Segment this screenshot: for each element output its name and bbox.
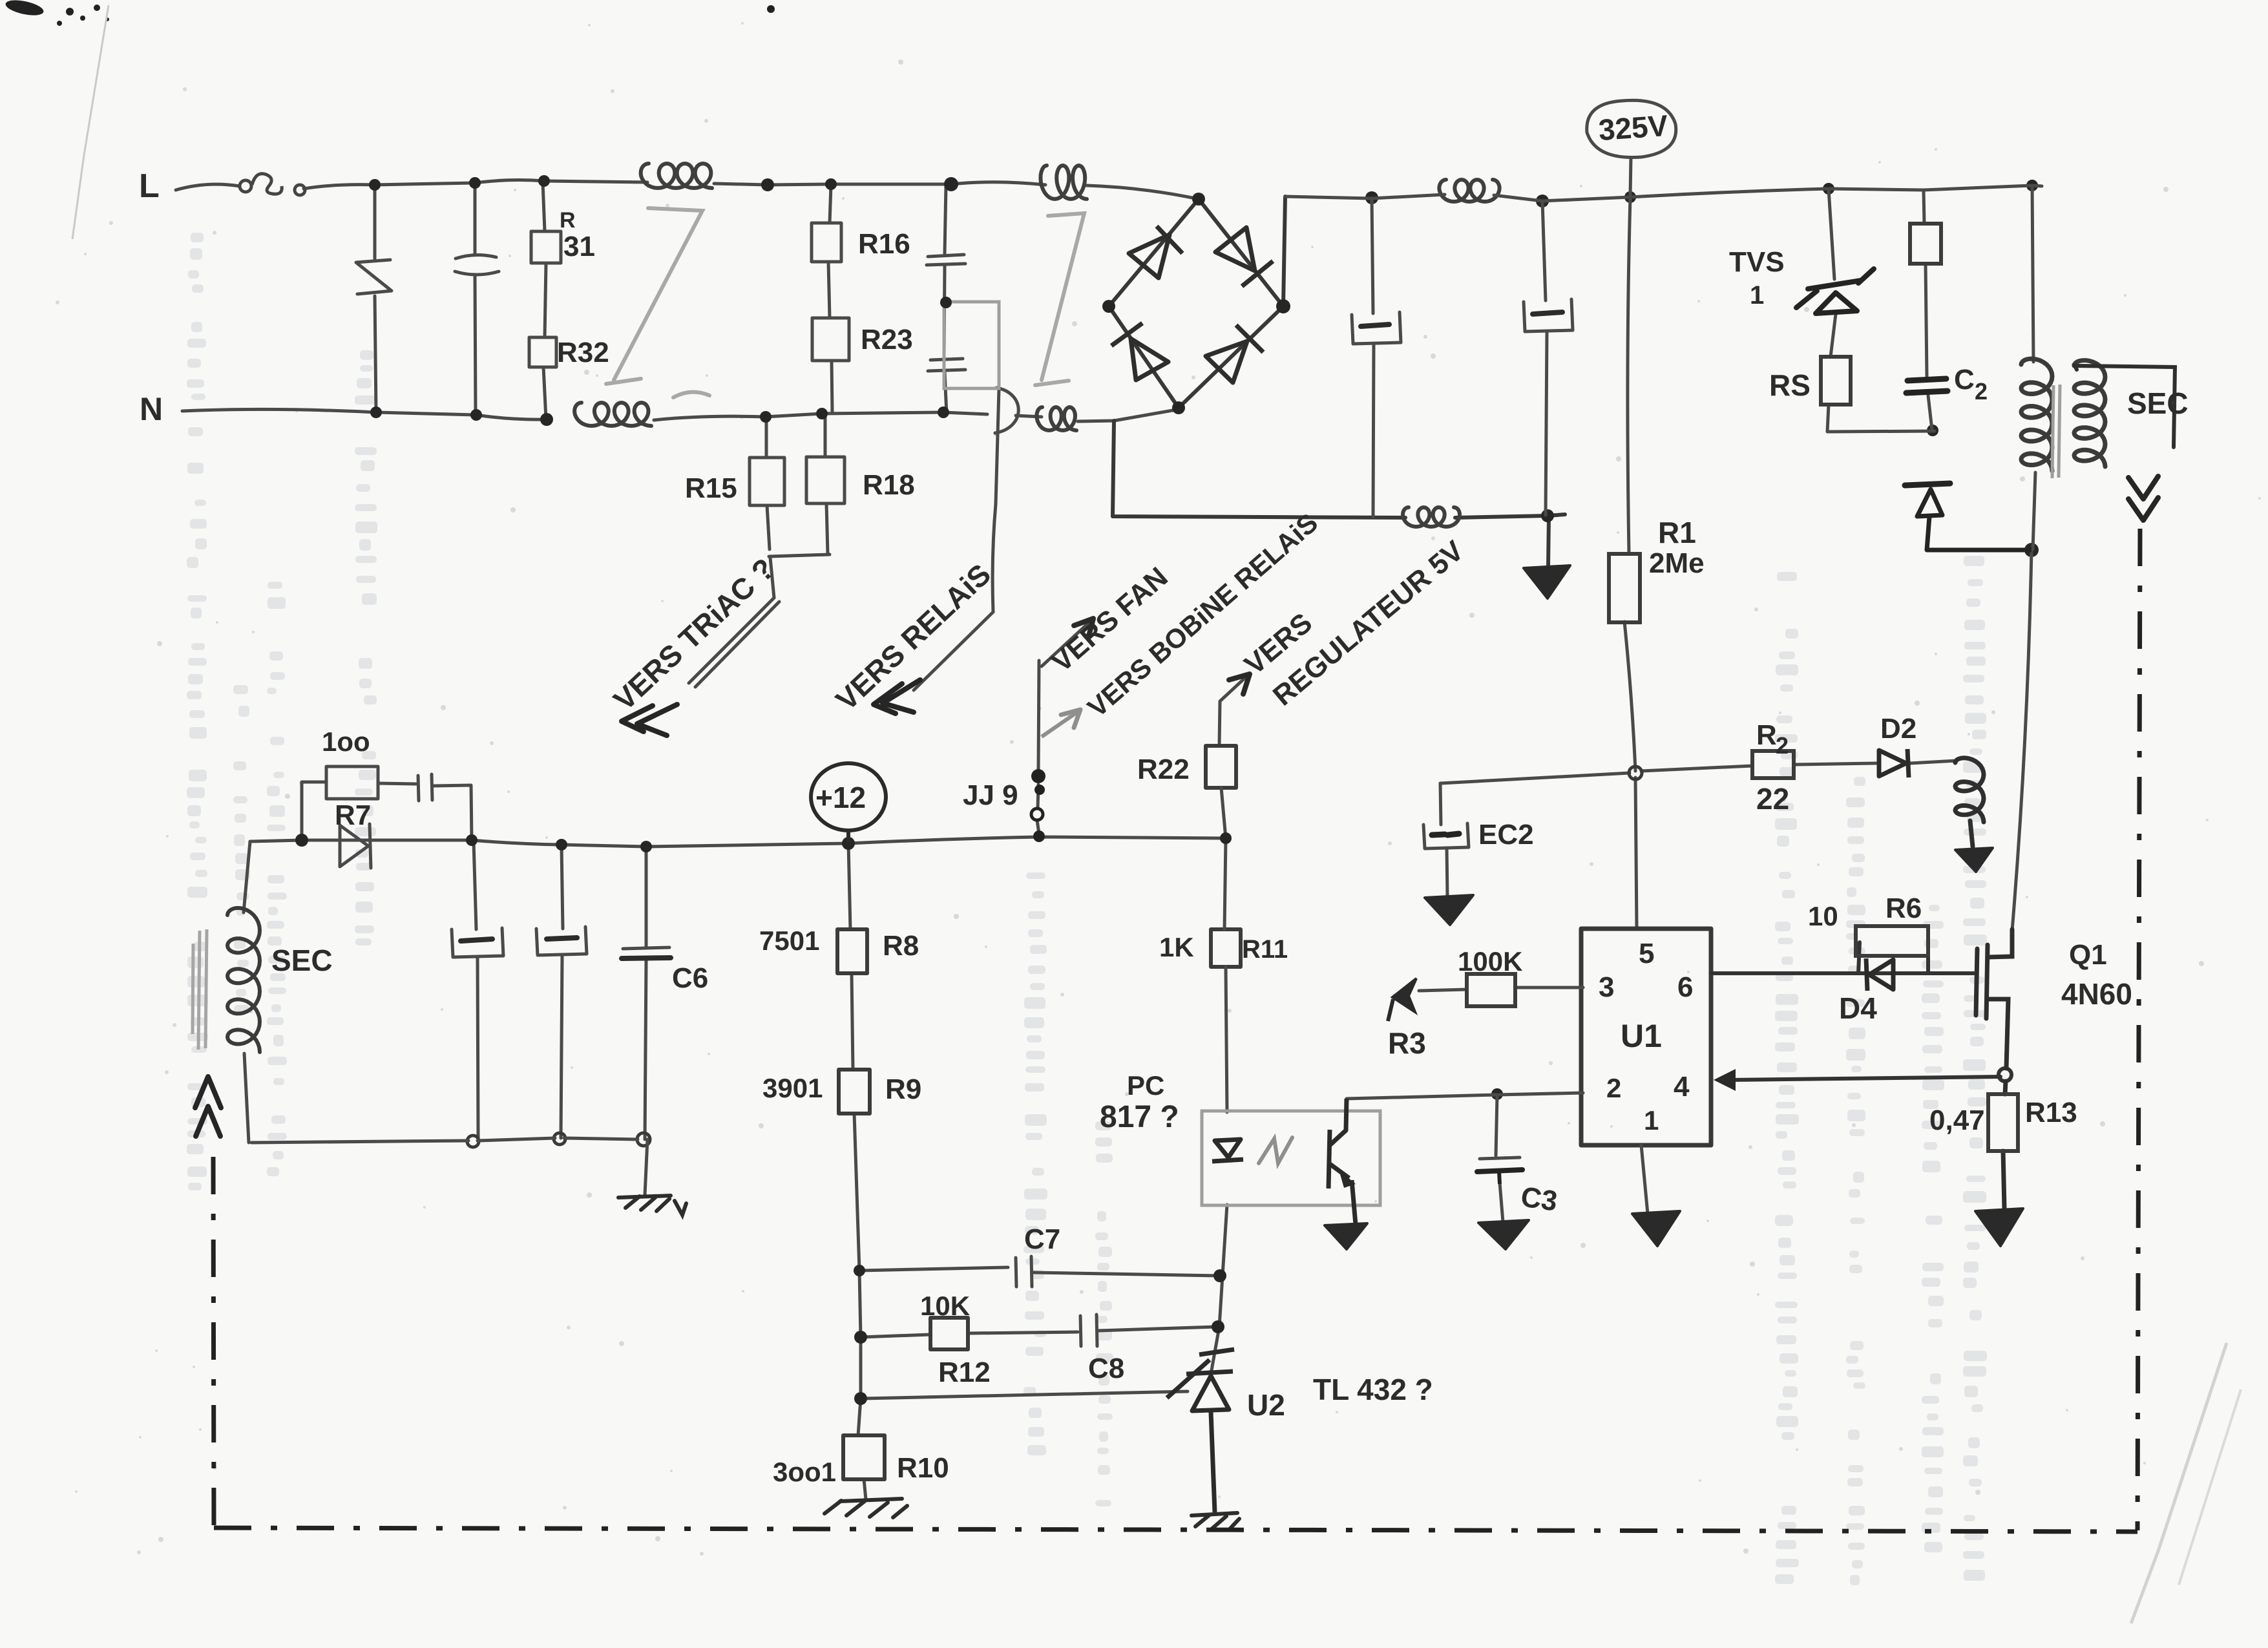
svg-text:R9: R9	[885, 1073, 921, 1105]
svg-text:1K: 1K	[1159, 932, 1194, 962]
svg-text:U2: U2	[1247, 1388, 1285, 1422]
svg-text:2: 2	[1776, 732, 1789, 759]
svg-text:EC2: EC2	[1478, 819, 1534, 850]
svg-text:2: 2	[1975, 378, 1988, 405]
svg-text:R6: R6	[1885, 893, 1922, 924]
svg-text:R22: R22	[1137, 754, 1190, 785]
svg-text:R15: R15	[685, 472, 737, 504]
svg-text:SEC: SEC	[271, 944, 333, 977]
svg-text:R32: R32	[557, 337, 609, 368]
svg-text:6: 6	[1677, 971, 1693, 1003]
svg-text:C7: C7	[1024, 1223, 1060, 1255]
svg-text:10: 10	[1808, 901, 1838, 931]
svg-text:3901: 3901	[762, 1073, 823, 1103]
svg-text:5: 5	[1639, 938, 1654, 969]
svg-text:R: R	[560, 208, 576, 233]
svg-text:100K: 100K	[1458, 946, 1522, 977]
svg-text:C: C	[1954, 364, 1975, 396]
svg-text:C8: C8	[1088, 1353, 1124, 1384]
svg-text:22: 22	[1756, 782, 1789, 816]
svg-text:1oo: 1oo	[322, 726, 370, 757]
svg-text:R16: R16	[858, 228, 910, 260]
svg-text:R10: R10	[897, 1452, 949, 1484]
svg-text:RS: RS	[1769, 368, 1811, 402]
svg-text:SEC: SEC	[2127, 386, 2189, 420]
svg-text:2Me: 2Me	[1649, 547, 1705, 579]
svg-text:Q1: Q1	[2069, 939, 2107, 971]
svg-text:+12: +12	[815, 781, 866, 814]
svg-text:R1: R1	[1658, 516, 1696, 549]
svg-text:1: 1	[1644, 1105, 1659, 1136]
svg-text:L: L	[139, 167, 160, 205]
svg-text:0,47: 0,47	[1929, 1104, 1985, 1136]
svg-text:R13: R13	[2025, 1097, 2077, 1128]
svg-text:C6: C6	[672, 962, 708, 994]
svg-text:325V: 325V	[1597, 109, 1669, 147]
svg-text:R3: R3	[1388, 1026, 1426, 1060]
svg-text:TL 432 ?: TL 432 ?	[1313, 1373, 1433, 1406]
svg-text:R8: R8	[883, 930, 919, 962]
svg-text:4: 4	[1674, 1071, 1690, 1103]
svg-text:2: 2	[1606, 1073, 1621, 1103]
svg-text:JJ 9: JJ 9	[963, 779, 1018, 811]
svg-text:R12: R12	[938, 1357, 991, 1388]
svg-text:R11: R11	[1242, 935, 1288, 964]
svg-text:TVS: TVS	[1729, 246, 1785, 278]
svg-text:31: 31	[563, 231, 595, 262]
svg-text:3oo1: 3oo1	[773, 1457, 836, 1487]
svg-text:N: N	[140, 391, 163, 427]
svg-text:R7: R7	[335, 799, 371, 831]
svg-text:C3: C3	[1519, 1181, 1560, 1217]
svg-text:D4: D4	[1839, 991, 1877, 1025]
svg-text:4N60: 4N60	[2061, 977, 2132, 1011]
svg-text:817 ?: 817 ?	[1100, 1100, 1179, 1134]
svg-text:D2: D2	[1880, 713, 1916, 745]
svg-text:R: R	[1756, 719, 1777, 751]
svg-text:1: 1	[1750, 281, 1764, 310]
svg-text:3: 3	[1599, 971, 1614, 1003]
svg-text:R23: R23	[861, 324, 913, 355]
svg-text:U1: U1	[1621, 1018, 1662, 1054]
svg-text:PC: PC	[1127, 1070, 1164, 1101]
svg-text:10K: 10K	[920, 1291, 970, 1321]
svg-text:7501: 7501	[759, 925, 819, 956]
svg-text:R18: R18	[863, 469, 915, 501]
